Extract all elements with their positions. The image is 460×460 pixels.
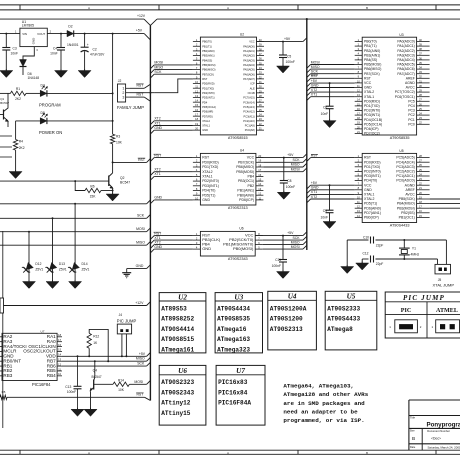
svg-text:U5: U5 bbox=[399, 149, 403, 153]
svg-text:PD5(T1): PD5(T1) bbox=[364, 202, 377, 206]
svg-text:SCK: SCK bbox=[311, 70, 319, 74]
svg-text:D12: D12 bbox=[35, 262, 41, 266]
svg-text:GND: GND bbox=[311, 186, 319, 190]
svg-text:AGND: AGND bbox=[405, 183, 416, 187]
svg-text:2K2: 2K2 bbox=[15, 97, 21, 101]
svg-text:PA7(ADC7): PA7(ADC7) bbox=[397, 72, 414, 76]
svg-text:MOSI: MOSI bbox=[154, 61, 163, 65]
svg-text:PC2: PC2 bbox=[408, 113, 415, 117]
svg-text:MISO: MISO bbox=[291, 163, 300, 167]
svg-text:MISO: MISO bbox=[136, 357, 145, 361]
svg-text:PB6(MISO): PB6(MISO) bbox=[236, 165, 254, 169]
svg-text:A: A bbox=[227, 451, 229, 455]
svg-text:RST: RST bbox=[136, 84, 144, 88]
svg-text:XT2: XT2 bbox=[154, 117, 160, 121]
svg-text:RST: RST bbox=[364, 156, 372, 160]
svg-text:GND: GND bbox=[364, 188, 372, 192]
svg-text:C5: C5 bbox=[287, 55, 291, 59]
svg-text:PB0(AIN0): PB0(AIN0) bbox=[237, 193, 254, 197]
svg-text:XT1: XT1 bbox=[154, 121, 160, 125]
svg-text:B: B bbox=[412, 436, 415, 441]
svg-text:PB2(SS): PB2(SS) bbox=[401, 211, 415, 215]
svg-text:AT90S2343: AT90S2343 bbox=[228, 257, 248, 261]
svg-text:PC5(ADC5): PC5(ADC5) bbox=[396, 156, 414, 160]
svg-text:BC547: BC547 bbox=[92, 375, 102, 379]
svg-text:AGND: AGND bbox=[405, 81, 415, 85]
svg-text:GND: GND bbox=[202, 128, 208, 132]
svg-text:U2: U2 bbox=[240, 32, 244, 36]
svg-text:100nF: 100nF bbox=[67, 390, 76, 394]
svg-text:PD6(WR): PD6(WR) bbox=[202, 110, 213, 114]
svg-text:AT90S8535: AT90S8535 bbox=[390, 136, 410, 140]
svg-text:PB3(AIN1): PB3(AIN1) bbox=[364, 53, 380, 57]
svg-text:U4: U4 bbox=[240, 149, 244, 153]
svg-text:RB3: RB3 bbox=[3, 373, 12, 378]
svg-text:PC3(A11): PC3(A11) bbox=[243, 114, 254, 118]
svg-text:SCK: SCK bbox=[293, 236, 301, 240]
svg-text:MISO: MISO bbox=[136, 241, 145, 245]
svg-text:10nF: 10nF bbox=[320, 215, 328, 219]
svg-text:C6: C6 bbox=[323, 105, 327, 109]
svg-text:RST: RST bbox=[136, 393, 144, 397]
svg-text:ATmega128 and other AVRs: ATmega128 and other AVRs bbox=[283, 391, 368, 398]
svg-text:RST: RST bbox=[311, 153, 319, 157]
svg-text:PB1(T1): PB1(T1) bbox=[202, 44, 212, 48]
svg-text:PB2(AIN0): PB2(AIN0) bbox=[202, 49, 215, 53]
svg-text:PA6(AD6): PA6(AD6) bbox=[243, 72, 255, 76]
svg-text:15K: 15K bbox=[90, 195, 97, 199]
svg-text:MOSI: MOSI bbox=[291, 245, 300, 249]
svg-text:PB2: PB2 bbox=[247, 184, 254, 188]
svg-text:PB0(MOSI): PB0(MOSI) bbox=[233, 246, 254, 251]
svg-text:PB1(AIN1): PB1(AIN1) bbox=[237, 189, 254, 193]
svg-text:1: 1 bbox=[15, 30, 17, 34]
svg-text:PIC16F84A: PIC16F84A bbox=[218, 400, 251, 407]
svg-text:SCK: SCK bbox=[137, 362, 145, 366]
svg-text:ATtiny12: ATtiny12 bbox=[161, 400, 191, 407]
svg-text:PA2(ADC2): PA2(ADC2) bbox=[397, 49, 414, 53]
svg-text:+5V: +5V bbox=[311, 79, 318, 83]
svg-text:PC4: PC4 bbox=[408, 104, 415, 108]
svg-text:ICP: ICP bbox=[250, 82, 255, 86]
svg-text:PC4(A12): PC4(A12) bbox=[243, 110, 255, 114]
svg-text:VCC: VCC bbox=[247, 156, 255, 160]
svg-text:PB6(MISO): PB6(MISO) bbox=[202, 68, 215, 72]
svg-text:XTAL JUMP: XTAL JUMP bbox=[433, 282, 455, 287]
svg-text:MISO: MISO bbox=[291, 240, 300, 244]
svg-text:1K: 1K bbox=[93, 341, 98, 345]
svg-text:+: + bbox=[87, 43, 89, 47]
svg-text:PA0(AD0): PA0(AD0) bbox=[243, 44, 255, 48]
svg-text:C2: C2 bbox=[93, 48, 97, 52]
svg-text:10nF: 10nF bbox=[11, 51, 19, 55]
svg-text:C3: C3 bbox=[13, 47, 17, 51]
svg-text:PROGRAM: PROGRAM bbox=[39, 102, 61, 107]
svg-text:XTAL2: XTAL2 bbox=[364, 90, 374, 94]
svg-text:MOSI: MOSI bbox=[291, 167, 300, 171]
svg-text:LM7805: LM7805 bbox=[22, 24, 34, 28]
svg-text:PC5: PC5 bbox=[408, 99, 415, 103]
svg-text:R5: R5 bbox=[2, 390, 6, 394]
svg-text:GND: GND bbox=[154, 196, 162, 200]
svg-text:R6: R6 bbox=[90, 185, 94, 189]
svg-text:C4: C4 bbox=[53, 47, 57, 51]
svg-text:100nF: 100nF bbox=[272, 264, 281, 268]
svg-text:PC2(A10): PC2(A10) bbox=[243, 119, 255, 123]
svg-text:PA1(ADC1): PA1(ADC1) bbox=[397, 44, 414, 48]
svg-text:XTAL2: XTAL2 bbox=[202, 119, 210, 123]
svg-text:R3: R3 bbox=[116, 134, 120, 138]
svg-text:<Doc>: <Doc> bbox=[431, 437, 441, 441]
svg-text:OC1B: OC1B bbox=[248, 91, 255, 95]
svg-text:C8: C8 bbox=[287, 179, 291, 183]
svg-text:C11: C11 bbox=[275, 258, 281, 262]
svg-text:U7: U7 bbox=[41, 330, 45, 334]
svg-text:C13: C13 bbox=[65, 385, 71, 389]
svg-text:PB6(MISO): PB6(MISO) bbox=[364, 67, 381, 71]
svg-text:AT90S2313: AT90S2313 bbox=[270, 326, 303, 333]
svg-text:D13: D13 bbox=[59, 262, 65, 266]
svg-text:GND: GND bbox=[364, 86, 372, 90]
svg-text:PD3(INT1): PD3(INT1) bbox=[364, 174, 381, 178]
svg-text:VIN: VIN bbox=[22, 32, 27, 36]
svg-text:PA5(AD5): PA5(AD5) bbox=[243, 68, 255, 72]
svg-text:XTAL2: XTAL2 bbox=[364, 197, 374, 201]
svg-text:100nF: 100nF bbox=[286, 185, 295, 189]
svg-text:AVCC: AVCC bbox=[405, 193, 415, 197]
svg-text:PC0(A8): PC0(A8) bbox=[245, 128, 255, 132]
svg-text:PC6(TOSC1): PC6(TOSC1) bbox=[395, 95, 415, 99]
svg-text:PB1(OC1): PB1(OC1) bbox=[399, 216, 415, 220]
svg-text:1: 1 bbox=[122, 87, 124, 91]
svg-text:U3: U3 bbox=[399, 33, 403, 37]
svg-text:PC5(A13): PC5(A13) bbox=[243, 105, 255, 109]
svg-text:GND: GND bbox=[32, 38, 36, 44]
svg-text:VCC: VCC bbox=[249, 40, 255, 44]
svg-text:XTAL1: XTAL1 bbox=[202, 175, 212, 179]
svg-text:4MHz: 4MHz bbox=[411, 253, 420, 257]
svg-text:PC6(A14): PC6(A14) bbox=[243, 100, 255, 104]
svg-text:PIC16x84: PIC16x84 bbox=[218, 389, 248, 396]
svg-text:AT90S4414: AT90S4414 bbox=[161, 326, 194, 333]
svg-text:D8: D8 bbox=[41, 111, 45, 115]
svg-text:AT90S8515: AT90S8515 bbox=[161, 336, 194, 343]
svg-text:C10: C10 bbox=[363, 235, 369, 239]
svg-text:PB3(OC1): PB3(OC1) bbox=[238, 179, 254, 183]
svg-text:RST: RST bbox=[202, 77, 208, 81]
svg-text:PD5(OC1A): PD5(OC1A) bbox=[364, 122, 382, 126]
svg-text:PA6(ADC6): PA6(ADC6) bbox=[397, 67, 414, 71]
svg-text:PD4: PD4 bbox=[202, 100, 208, 104]
svg-text:VCC: VCC bbox=[364, 183, 372, 187]
svg-text:PB5(MOSI): PB5(MOSI) bbox=[202, 63, 215, 67]
svg-text:XT2: XT2 bbox=[154, 168, 160, 172]
svg-text:C9: C9 bbox=[323, 209, 327, 213]
svg-text:XTAL1: XTAL1 bbox=[364, 95, 374, 99]
svg-text:PD1(TXD): PD1(TXD) bbox=[202, 165, 218, 169]
svg-text:J2: J2 bbox=[118, 79, 122, 83]
svg-text:MISO: MISO bbox=[311, 65, 320, 69]
svg-text:AT89S53: AT89S53 bbox=[161, 305, 187, 312]
svg-text:ATmega161: ATmega161 bbox=[161, 347, 194, 354]
svg-text:10nF: 10nF bbox=[50, 51, 58, 55]
svg-text:AT90S2343: AT90S2343 bbox=[161, 389, 194, 396]
svg-text:XT1: XT1 bbox=[311, 93, 317, 97]
svg-text:PC4(ADC4): PC4(ADC4) bbox=[396, 160, 414, 164]
svg-text:PB5(MOSI): PB5(MOSI) bbox=[236, 170, 254, 174]
svg-text:PD5(T1): PD5(T1) bbox=[202, 193, 215, 197]
svg-text:+12V: +12V bbox=[135, 301, 144, 305]
svg-text:PB4(MISO): PB4(MISO) bbox=[397, 202, 415, 206]
svg-text:PD1(TXD): PD1(TXD) bbox=[364, 165, 380, 169]
svg-text:+5V: +5V bbox=[311, 181, 318, 185]
svg-text:ATmega64, ATmega103,: ATmega64, ATmega103, bbox=[283, 383, 354, 390]
svg-text:47uF/16V: 47uF/16V bbox=[90, 53, 105, 57]
svg-text:PC2(ADC2): PC2(ADC2) bbox=[396, 170, 414, 174]
svg-text:22pF: 22pF bbox=[376, 244, 384, 248]
svg-text:GND: GND bbox=[136, 264, 144, 268]
svg-text:MOSI: MOSI bbox=[136, 227, 145, 231]
svg-text:A: A bbox=[88, 451, 90, 455]
svg-text:POWER ON: POWER ON bbox=[39, 130, 62, 135]
svg-text:GND: GND bbox=[202, 198, 210, 202]
svg-text:PD6(ICP): PD6(ICP) bbox=[364, 127, 379, 131]
svg-text:FAMILY JUMP: FAMILY JUMP bbox=[117, 105, 144, 110]
svg-text:Z5V1: Z5V1 bbox=[82, 268, 90, 272]
svg-text:PD4(T0): PD4(T0) bbox=[364, 179, 377, 183]
svg-text:PA7(AD7): PA7(AD7) bbox=[243, 77, 255, 81]
svg-text:Ponyprogram: Ponyprogram bbox=[427, 422, 460, 429]
svg-text:PC3(ADC3): PC3(ADC3) bbox=[396, 165, 414, 169]
svg-text:PB5(SCK): PB5(SCK) bbox=[399, 197, 415, 201]
svg-text:XT1: XT1 bbox=[154, 236, 160, 240]
svg-text:AT90S2323: AT90S2323 bbox=[161, 379, 194, 386]
svg-text:MOSI: MOSI bbox=[134, 380, 143, 384]
svg-text:PD0(RXD): PD0(RXD) bbox=[202, 160, 219, 164]
svg-text:AT90S8535: AT90S8535 bbox=[217, 316, 250, 323]
svg-text:Date: Date bbox=[410, 446, 416, 449]
svg-text:A: A bbox=[88, 6, 90, 10]
svg-text:PC0: PC0 bbox=[408, 122, 415, 126]
svg-text:PA3(ADC3): PA3(ADC3) bbox=[397, 53, 414, 57]
svg-text:PD6(ICP): PD6(ICP) bbox=[239, 198, 254, 202]
svg-text:AREF: AREF bbox=[405, 188, 414, 192]
svg-text:PD6(AIN0): PD6(AIN0) bbox=[364, 206, 381, 210]
svg-text:U6: U6 bbox=[239, 227, 243, 231]
svg-text:are in SMD packages and: are in SMD packages and bbox=[283, 400, 365, 407]
svg-text:PC3: PC3 bbox=[408, 109, 415, 113]
svg-text:PD7(RD): PD7(RD) bbox=[202, 114, 213, 118]
svg-text:PB4: PB4 bbox=[247, 175, 254, 179]
svg-text:100nF: 100nF bbox=[286, 60, 295, 64]
svg-text:ATtiny15: ATtiny15 bbox=[161, 410, 191, 417]
svg-text:PC1(ADC1): PC1(ADC1) bbox=[396, 174, 414, 178]
svg-text:XT2: XT2 bbox=[311, 88, 317, 92]
svg-text:GND: GND bbox=[311, 83, 319, 87]
svg-text:programmed, or via ISP.: programmed, or via ISP. bbox=[283, 417, 364, 424]
svg-text:PB7(SCK): PB7(SCK) bbox=[202, 72, 214, 76]
svg-text:U3: U3 bbox=[234, 293, 243, 301]
svg-text:XT2: XT2 bbox=[154, 240, 160, 244]
svg-text:PD7(OC2): PD7(OC2) bbox=[364, 132, 380, 136]
svg-text:C12: C12 bbox=[362, 251, 368, 255]
svg-text:U2: U2 bbox=[178, 293, 187, 301]
svg-text:D2: D2 bbox=[68, 24, 72, 28]
svg-text:PD0(RXD): PD0(RXD) bbox=[202, 82, 214, 86]
svg-text:Q2: Q2 bbox=[120, 176, 125, 180]
svg-text:PB0(ICP): PB0(ICP) bbox=[364, 216, 379, 220]
svg-text:A: A bbox=[227, 6, 229, 10]
svg-text:+5V: +5V bbox=[287, 153, 294, 157]
svg-text:PC1: PC1 bbox=[408, 118, 415, 122]
svg-text:PD2(INT0): PD2(INT0) bbox=[202, 91, 215, 95]
svg-text:PA0(ADC0): PA0(ADC0) bbox=[397, 40, 414, 44]
svg-text:3: 3 bbox=[122, 95, 124, 99]
svg-text:PA4(AD4): PA4(AD4) bbox=[243, 63, 255, 67]
svg-text:PIC JUMP: PIC JUMP bbox=[117, 318, 137, 323]
svg-text:PD0(RXD): PD0(RXD) bbox=[364, 99, 380, 103]
svg-text:2: 2 bbox=[50, 30, 52, 34]
svg-text:+5V: +5V bbox=[287, 231, 294, 235]
svg-text:PB3(MOSI): PB3(MOSI) bbox=[397, 206, 415, 210]
svg-text:RST: RST bbox=[364, 76, 371, 80]
svg-text:PIC16x83: PIC16x83 bbox=[218, 379, 248, 386]
svg-text:PD1(TXD): PD1(TXD) bbox=[364, 104, 380, 108]
svg-text:U6: U6 bbox=[178, 367, 187, 375]
svg-text:MISO: MISO bbox=[154, 65, 163, 69]
svg-text:RST: RST bbox=[138, 158, 146, 162]
svg-text:J4: J4 bbox=[119, 313, 123, 317]
svg-text:PD2(INT0): PD2(INT0) bbox=[202, 179, 219, 183]
svg-text:R14: R14 bbox=[118, 379, 124, 383]
svg-text:Y1: Y1 bbox=[412, 247, 416, 251]
svg-text:PD0(RXD): PD0(RXD) bbox=[364, 160, 381, 164]
svg-text:PIC JUMP: PIC JUMP bbox=[403, 294, 445, 302]
svg-text:PIC16F84: PIC16F84 bbox=[32, 382, 51, 387]
svg-text:PB0(T0): PB0(T0) bbox=[202, 40, 212, 44]
svg-text:Title: Title bbox=[410, 415, 415, 419]
svg-text:PD3(INT1): PD3(INT1) bbox=[202, 96, 215, 100]
svg-text:2: 2 bbox=[420, 325, 422, 329]
svg-text:need an adapter to be: need an adapter to be bbox=[283, 408, 358, 415]
svg-text:Document Number: Document Number bbox=[427, 429, 450, 433]
svg-text:XTAL1: XTAL1 bbox=[364, 193, 374, 197]
svg-text:1: 1 bbox=[431, 325, 433, 329]
svg-text:Saturday, March 24, 2001: Saturday, March 24, 2001 bbox=[428, 445, 460, 449]
svg-text:AT89S8252: AT89S8252 bbox=[161, 316, 194, 323]
svg-text:SCK: SCK bbox=[154, 70, 162, 74]
svg-text:AT90S1200A: AT90S1200A bbox=[270, 305, 307, 312]
svg-text:B: B bbox=[366, 6, 368, 10]
svg-text:PD2(INT0): PD2(INT0) bbox=[364, 170, 381, 174]
svg-text:PA2(AD2): PA2(AD2) bbox=[243, 54, 255, 58]
svg-text:XTAL1: XTAL1 bbox=[202, 124, 210, 128]
svg-text:D14: D14 bbox=[82, 262, 88, 266]
svg-text:XT1: XT1 bbox=[311, 190, 317, 194]
svg-text:22pF: 22pF bbox=[376, 262, 384, 266]
svg-text:PD5(OC1A): PD5(OC1A) bbox=[202, 105, 216, 109]
svg-text:VOUT: VOUT bbox=[37, 32, 45, 36]
svg-text:PD7(AIN1): PD7(AIN1) bbox=[364, 211, 381, 215]
svg-text:ATmega8: ATmega8 bbox=[327, 326, 353, 333]
svg-text:AT90S8515: AT90S8515 bbox=[228, 136, 248, 140]
svg-text:PD3(INT1): PD3(INT1) bbox=[202, 184, 219, 188]
svg-text:ATmega163: ATmega163 bbox=[217, 336, 250, 343]
svg-text:R12: R12 bbox=[93, 335, 99, 339]
svg-text:PC0(ADC0): PC0(ADC0) bbox=[396, 179, 414, 183]
svg-text:3: 3 bbox=[36, 48, 38, 52]
svg-text:2: 2 bbox=[122, 91, 124, 95]
svg-text:PB7(SCK): PB7(SCK) bbox=[238, 160, 254, 164]
svg-text:PD1(TXD): PD1(TXD) bbox=[202, 86, 214, 90]
svg-text:+5V: +5V bbox=[139, 352, 146, 356]
svg-text:XTAL2: XTAL2 bbox=[202, 170, 212, 174]
svg-text:+5V: +5V bbox=[136, 29, 143, 33]
svg-text:PB0(T0): PB0(T0) bbox=[364, 40, 377, 44]
svg-text:RST: RST bbox=[136, 93, 144, 97]
svg-text:GND: GND bbox=[154, 126, 162, 130]
svg-text:AT90S2333: AT90S2333 bbox=[327, 305, 360, 312]
svg-text:PB3(AIN1): PB3(AIN1) bbox=[202, 54, 215, 58]
svg-text:SCK: SCK bbox=[137, 214, 145, 218]
svg-text:10K: 10K bbox=[118, 388, 125, 392]
svg-text:AT90S4433: AT90S4433 bbox=[390, 224, 410, 228]
svg-text:1N4001: 1N4001 bbox=[67, 43, 79, 47]
svg-text:Z5V1: Z5V1 bbox=[35, 268, 43, 272]
svg-text:PB4(SS): PB4(SS) bbox=[364, 58, 377, 62]
svg-text:BC547: BC547 bbox=[120, 181, 130, 185]
svg-text:XT2: XT2 bbox=[311, 195, 317, 199]
svg-text:2K2: 2K2 bbox=[19, 146, 25, 150]
svg-text:PD4(OC1B): PD4(OC1B) bbox=[364, 118, 382, 122]
svg-text:PIC: PIC bbox=[401, 308, 412, 314]
svg-text:1: 1 bbox=[389, 325, 391, 329]
svg-text:+5V: +5V bbox=[284, 37, 291, 41]
svg-text:R1: R1 bbox=[16, 87, 20, 91]
svg-text:10K: 10K bbox=[116, 141, 123, 145]
svg-text:VCC: VCC bbox=[364, 81, 372, 85]
svg-text:U5: U5 bbox=[347, 293, 356, 301]
svg-text:XT1: XT1 bbox=[154, 172, 160, 176]
svg-text:PB1(T1): PB1(T1) bbox=[364, 44, 377, 48]
svg-text:GND: GND bbox=[202, 246, 211, 251]
svg-text:PB2(AIN0): PB2(AIN0) bbox=[364, 49, 380, 53]
svg-text:ATmega16: ATmega16 bbox=[217, 326, 247, 333]
svg-text:PA5(ADC5): PA5(ADC5) bbox=[397, 63, 414, 67]
svg-text:ATmega323: ATmega323 bbox=[217, 347, 250, 354]
svg-text:U4: U4 bbox=[288, 293, 297, 301]
svg-text:RB4: RB4 bbox=[47, 373, 56, 378]
svg-text:PC7(TOSC2): PC7(TOSC2) bbox=[395, 90, 415, 94]
svg-text:D7: D7 bbox=[41, 84, 45, 88]
svg-text:AT90S4434: AT90S4434 bbox=[217, 305, 250, 312]
svg-text:PA1(AD1): PA1(AD1) bbox=[243, 49, 255, 53]
svg-text:PB4(SS): PB4(SS) bbox=[202, 58, 212, 62]
svg-text:PB7(SCK): PB7(SCK) bbox=[364, 72, 380, 76]
svg-text:MOSI: MOSI bbox=[311, 60, 320, 64]
svg-text:AT90S2313: AT90S2313 bbox=[228, 206, 248, 210]
svg-text:U7: U7 bbox=[236, 367, 245, 375]
svg-text:AREF: AREF bbox=[406, 76, 415, 80]
svg-text:AT90S4433: AT90S4433 bbox=[327, 316, 360, 323]
svg-text:PD3(INT1): PD3(INT1) bbox=[364, 113, 380, 117]
svg-text:AT90S1200: AT90S1200 bbox=[270, 316, 303, 323]
svg-text:R4: R4 bbox=[19, 139, 23, 143]
svg-text:AVCC: AVCC bbox=[406, 86, 416, 90]
svg-text:GND: GND bbox=[154, 245, 162, 249]
svg-text:PB5(MOSI): PB5(MOSI) bbox=[364, 63, 381, 67]
svg-text:ALE: ALE bbox=[250, 86, 255, 90]
